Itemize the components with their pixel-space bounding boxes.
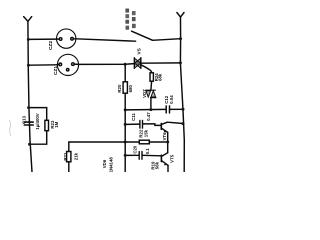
- socket CZ1: [57, 54, 78, 75]
- transistor VT6: [160, 123, 162, 129]
- node triac right rail junction: [179, 61, 182, 64]
- svg-text:21k: 21k: [74, 152, 79, 160]
- node VT6 collector rail junction: [182, 122, 185, 125]
- wire diac to lower bus: [150, 98, 152, 110]
- svg-text:C11: C11: [131, 113, 136, 121]
- capacitor C11: [139, 120, 141, 128]
- label relay text col1 (blobs): [125, 9, 135, 30]
- resistor R24 gate 68k: [150, 73, 153, 81]
- svg-text:56k: 56k: [154, 161, 159, 169]
- capacitor C20 0.1: [138, 152, 140, 160]
- capacitor C13 1u/400V: [24, 121, 33, 123]
- svg-text:VT6: VT6: [162, 132, 167, 141]
- node bus mid junction: [124, 108, 127, 111]
- wire R24 to diac: [150, 81, 153, 90]
- node mid branch junction: [124, 63, 127, 66]
- svg-text:15k: 15k: [143, 129, 148, 137]
- label relay text col2 (blobs): [132, 11, 136, 15]
- resistor R23 1M: [45, 120, 49, 130]
- wire R21 branch: [69, 142, 125, 152]
- resistor R21 21k: [67, 152, 71, 162]
- wire R23 parallel branch: [29, 108, 47, 121]
- wire C20 to VT5 base: [143, 154, 161, 157]
- antenna/line-break symbol right: [177, 13, 184, 18]
- svg-text:68k: 68k: [157, 73, 162, 81]
- wire triac to right rail: [141, 62, 181, 64]
- node diac bus junction: [149, 108, 152, 111]
- svg-text:0.04: 0.04: [169, 95, 174, 104]
- antenna/line-break symbol left: [24, 17, 32, 22]
- svg-text:VS: VS: [137, 47, 143, 54]
- wire lower bus y110: [125, 108, 166, 111]
- wire mid vertical: [124, 64, 126, 82]
- svg-text:VD7: VD7: [142, 89, 147, 98]
- node switch right rail junction: [179, 37, 182, 40]
- wire CZ2 feed from left rail: [28, 38, 56, 40]
- svg-text:CZ1: CZ1: [53, 66, 59, 75]
- svg-text:VT5: VT5: [170, 154, 175, 163]
- diac VD7: [146, 89, 156, 91]
- svg-text:C13: C13: [22, 115, 27, 124]
- wire CZ2 to switch: [76, 39, 136, 41]
- svg-text:1M: 1M: [54, 121, 59, 127]
- svg-text:VD6: VD6: [102, 159, 107, 168]
- node bus right rail junction: [182, 108, 185, 111]
- transistor VT5: [160, 155, 162, 161]
- svg-text:CZ2: CZ2: [48, 41, 54, 50]
- capacitor C12: [165, 106, 167, 113]
- socket CZ2: [56, 29, 75, 48]
- triac VS: [133, 58, 135, 69]
- svg-text:1N4148: 1N4148: [109, 157, 114, 172]
- svg-text:R21: R21: [63, 152, 68, 161]
- wire triac gate: [141, 65, 152, 73]
- wire left rail: [28, 21, 32, 172]
- resistor R20 680: [123, 82, 127, 93]
- svg-text:1μ/400V: 1μ/400V: [35, 113, 40, 130]
- svg-text:C20: C20: [133, 145, 138, 154]
- node CZ1 left rail junction: [27, 64, 30, 67]
- switch relay contact K: [132, 31, 153, 40]
- faint scan artifact: [10, 120, 12, 136]
- resistor R22 15k: [125, 141, 139, 143]
- wire C11 branch: [125, 123, 139, 125]
- node CZ2 left rail junction: [27, 38, 30, 41]
- svg-text:0.47: 0.47: [146, 112, 151, 121]
- node R22 emitter junction: [166, 141, 169, 144]
- wire C20 branch: [125, 154, 138, 156]
- wire mid vertical lower: [124, 93, 126, 172]
- node C11 mid junction: [124, 123, 127, 126]
- svg-text:680: 680: [128, 84, 133, 92]
- wire CZ1 to triac: [78, 63, 134, 66]
- svg-text:0.1: 0.1: [145, 148, 150, 155]
- wire C11 to VT6 base: [143, 124, 160, 126]
- svg-text:R20: R20: [117, 84, 122, 93]
- wire right rail: [180, 17, 184, 172]
- wire CZ1 feed from left rail: [28, 64, 57, 66]
